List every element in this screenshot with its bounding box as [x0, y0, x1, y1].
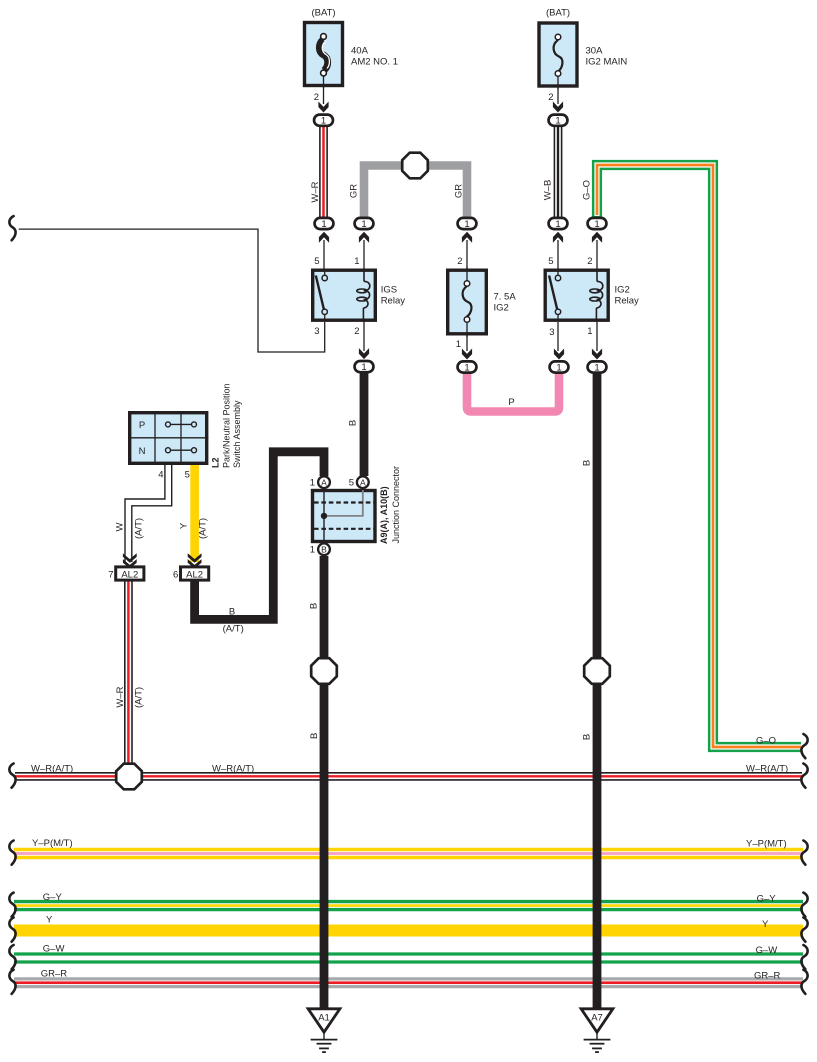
svg-text:Y–P(M/T): Y–P(M/T)	[746, 839, 787, 850]
svg-text:W–R(A/T): W–R(A/T)	[746, 764, 788, 775]
svg-text:(A/T): (A/T)	[198, 518, 209, 539]
svg-text:4: 4	[158, 470, 163, 481]
svg-text:(A/T): (A/T)	[134, 687, 145, 708]
svg-text:7. 5A: 7. 5A	[494, 292, 517, 303]
svg-text:A7: A7	[591, 1013, 603, 1024]
svg-text:GR: GR	[453, 184, 464, 198]
svg-text:2: 2	[354, 326, 359, 337]
svg-text:Relay: Relay	[381, 296, 406, 307]
svg-text:A9(A), A10(B): A9(A), A10(B)	[379, 486, 389, 544]
svg-text:G–Y: G–Y	[43, 892, 63, 903]
svg-text:W–B: W–B	[542, 180, 553, 201]
svg-text:(BAT): (BAT)	[546, 8, 570, 19]
svg-text:3: 3	[314, 326, 319, 337]
svg-text:P: P	[139, 420, 145, 431]
svg-text:40A: 40A	[351, 46, 369, 57]
svg-text:B: B	[229, 607, 235, 618]
svg-text:B: B	[309, 733, 320, 739]
svg-text:5: 5	[314, 256, 319, 267]
svg-text:Y–P(M/T): Y–P(M/T)	[32, 838, 73, 849]
svg-text:GR–R: GR–R	[754, 971, 781, 982]
svg-text:1: 1	[354, 256, 359, 267]
svg-text:A1: A1	[318, 1013, 330, 1024]
svg-text:B: B	[308, 603, 319, 609]
svg-text:W–R: W–R	[115, 686, 126, 707]
svg-text:1: 1	[310, 545, 315, 556]
svg-text:A: A	[321, 477, 327, 487]
svg-text:1: 1	[456, 339, 461, 350]
svg-text:G–W: G–W	[756, 945, 778, 956]
svg-text:Switch Assembly: Switch Assembly	[232, 400, 242, 468]
svg-text:30A: 30A	[586, 46, 604, 57]
svg-text:W–R(A/T): W–R(A/T)	[31, 764, 73, 775]
svg-text:6: 6	[173, 570, 178, 581]
svg-text:L2: L2	[211, 457, 221, 468]
svg-text:B: B	[321, 545, 327, 555]
svg-text:Y: Y	[179, 522, 190, 529]
svg-text:G–O: G–O	[581, 180, 592, 200]
svg-text:B: B	[347, 420, 358, 426]
svg-text:2: 2	[587, 256, 592, 267]
svg-text:IGS: IGS	[381, 285, 397, 296]
svg-text:3: 3	[549, 327, 554, 338]
svg-text:1: 1	[310, 477, 315, 488]
svg-text:GR–R: GR–R	[41, 969, 68, 980]
svg-text:2: 2	[457, 256, 462, 267]
svg-text:A: A	[360, 477, 366, 487]
svg-text:(A/T): (A/T)	[134, 518, 145, 539]
svg-text:W–R: W–R	[310, 181, 321, 202]
svg-text:G–Y: G–Y	[757, 894, 777, 905]
svg-text:5: 5	[349, 477, 354, 488]
svg-text:W–R(A/T): W–R(A/T)	[212, 764, 254, 775]
svg-text:G–O: G–O	[756, 736, 776, 747]
svg-text:Park/Neutral Position: Park/Neutral Position	[221, 383, 231, 468]
svg-text:(BAT): (BAT)	[311, 8, 335, 19]
svg-text:P: P	[508, 397, 514, 408]
svg-text:IG2: IG2	[494, 303, 509, 314]
svg-text:W: W	[115, 522, 126, 531]
svg-text:Relay: Relay	[615, 296, 640, 307]
svg-text:2: 2	[314, 92, 319, 103]
svg-text:IG2: IG2	[615, 285, 630, 296]
svg-text:7: 7	[108, 570, 113, 581]
svg-text:1: 1	[587, 326, 592, 337]
svg-text:5: 5	[548, 256, 553, 267]
svg-text:(A/T): (A/T)	[223, 624, 244, 635]
svg-text:B: B	[581, 734, 592, 740]
svg-text:G–W: G–W	[43, 944, 65, 955]
svg-text:Junction Connector: Junction Connector	[391, 466, 401, 544]
svg-text:5: 5	[185, 470, 190, 481]
svg-text:GR: GR	[348, 184, 359, 198]
svg-text:N: N	[139, 446, 146, 457]
svg-text:2: 2	[548, 92, 553, 103]
svg-text:Y: Y	[762, 919, 769, 930]
svg-text:Y: Y	[46, 915, 53, 926]
svg-text:B: B	[581, 460, 592, 466]
svg-text:IG2 MAIN: IG2 MAIN	[586, 56, 628, 67]
svg-text:AM2 NO. 1: AM2 NO. 1	[351, 56, 398, 67]
